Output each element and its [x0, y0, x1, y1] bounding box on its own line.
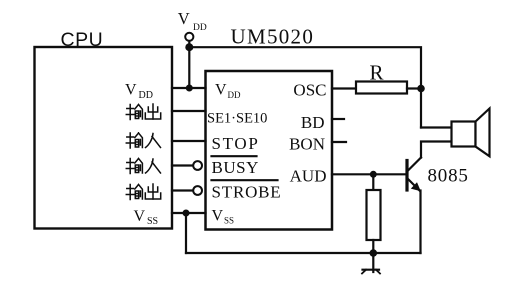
CPU block	[35, 47, 173, 229]
svg-text:SE1·SE10: SE1·SE10	[207, 111, 267, 127]
wire: CPU output pin row2	[172, 110, 206, 112]
wire: Vdd drop to pin row	[188, 47, 190, 88]
wire: Vdd top rail	[189, 47, 421, 88]
pin label Vdd (CPU)	[125, 82, 153, 102]
wire: R2 to ground rail	[372, 240, 374, 253]
pin label Vss (UM5020)	[212, 208, 235, 226]
svg-text:OSC: OSC	[293, 81, 326, 100]
svg-text:BON: BON	[289, 135, 325, 154]
Vdd label	[178, 9, 207, 33]
pin label 输入 (CPU row3)	[126, 133, 160, 148]
wire: OSC to R	[332, 87, 356, 89]
junction: R node	[417, 85, 425, 93]
pin label 输出 (CPU row5)	[126, 184, 160, 200]
wire: Vss drop	[185, 213, 187, 253]
junction: AUD node	[370, 171, 377, 178]
Vdd power terminal	[185, 33, 193, 45]
ground	[362, 253, 380, 274]
pin BON stub	[332, 141, 346, 143]
wire: CPU Vdd pin row	[172, 87, 206, 89]
wire: ground rail	[186, 252, 421, 254]
wire: AUD to base	[332, 173, 406, 175]
svg-text:AUD: AUD	[290, 167, 327, 186]
inverter bubble: STROBE	[193, 186, 202, 195]
svg-text:V: V	[134, 208, 146, 225]
resistor R2 (bias)	[367, 190, 381, 240]
wire: speaker bottom lead	[421, 142, 452, 158]
svg-text:SS: SS	[147, 216, 158, 227]
svg-text:BD: BD	[301, 113, 325, 132]
junction: Vdd pin node	[186, 85, 193, 92]
svg-text:STROBE: STROBE	[212, 183, 282, 202]
svg-text:UM5020: UM5020	[231, 25, 315, 49]
pin label Vss (CPU)	[134, 208, 159, 227]
svg-text:V: V	[125, 82, 137, 99]
pin BD stub	[332, 118, 344, 120]
pin label Vdd (UM5020)	[215, 82, 241, 101]
svg-text:V: V	[178, 9, 190, 28]
svg-text:V: V	[212, 208, 224, 225]
junction: Vss node	[183, 210, 190, 217]
junction: ground node	[370, 249, 378, 257]
svg-text:CPU: CPU	[61, 29, 104, 51]
UM5020 chip U1	[206, 71, 333, 230]
resistor R	[356, 82, 407, 94]
wire: node to resistor R2	[372, 174, 374, 190]
svg-text:R: R	[370, 61, 384, 85]
svg-text:SS: SS	[224, 216, 234, 226]
wire: CPU output pin row5	[172, 189, 193, 191]
wire: speaker top lead	[421, 126, 452, 128]
svg-text:DD: DD	[228, 90, 241, 100]
svg-text:STOP: STOP	[212, 134, 260, 153]
wire: CPU input pin row3	[172, 140, 206, 142]
overline: STROBE	[212, 179, 278, 181]
svg-text:BUSY: BUSY	[212, 158, 259, 177]
speaker LS	[452, 109, 490, 157]
svg-text:8085: 8085	[428, 166, 469, 187]
wire: CPU Vss pin row6	[172, 212, 206, 214]
svg-text:DD: DD	[139, 90, 153, 101]
svg-text:DD: DD	[193, 23, 207, 33]
junction: Vdd terminal node	[185, 43, 193, 51]
pin label 输入 (CPU row4)	[126, 159, 160, 174]
wire: node drop to speaker	[420, 89, 422, 128]
wire: CPU input pin row4	[172, 164, 193, 166]
inverter bubble: BUSY	[193, 161, 202, 170]
pin label 输出 (CPU row2)	[126, 104, 160, 120]
wire: R to collector rail	[407, 87, 421, 89]
svg-text:V: V	[215, 82, 227, 99]
wire: emitter drop	[419, 191, 421, 254]
transistor Q1 (8085)	[407, 158, 421, 192]
overline: BUSY	[212, 155, 257, 157]
